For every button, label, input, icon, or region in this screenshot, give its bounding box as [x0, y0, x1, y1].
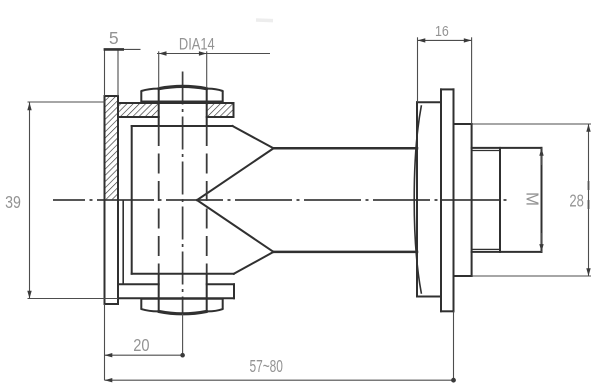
svg-text:M: M	[522, 192, 542, 206]
svg-text:20: 20	[133, 335, 150, 355]
svg-text:5: 5	[109, 28, 119, 48]
svg-text:28: 28	[569, 191, 584, 211]
svg-text:DIA14: DIA14	[179, 35, 215, 53]
svg-text:16: 16	[435, 24, 449, 40]
svg-text:39: 39	[5, 192, 21, 212]
svg-text:57~80: 57~80	[249, 356, 283, 376]
